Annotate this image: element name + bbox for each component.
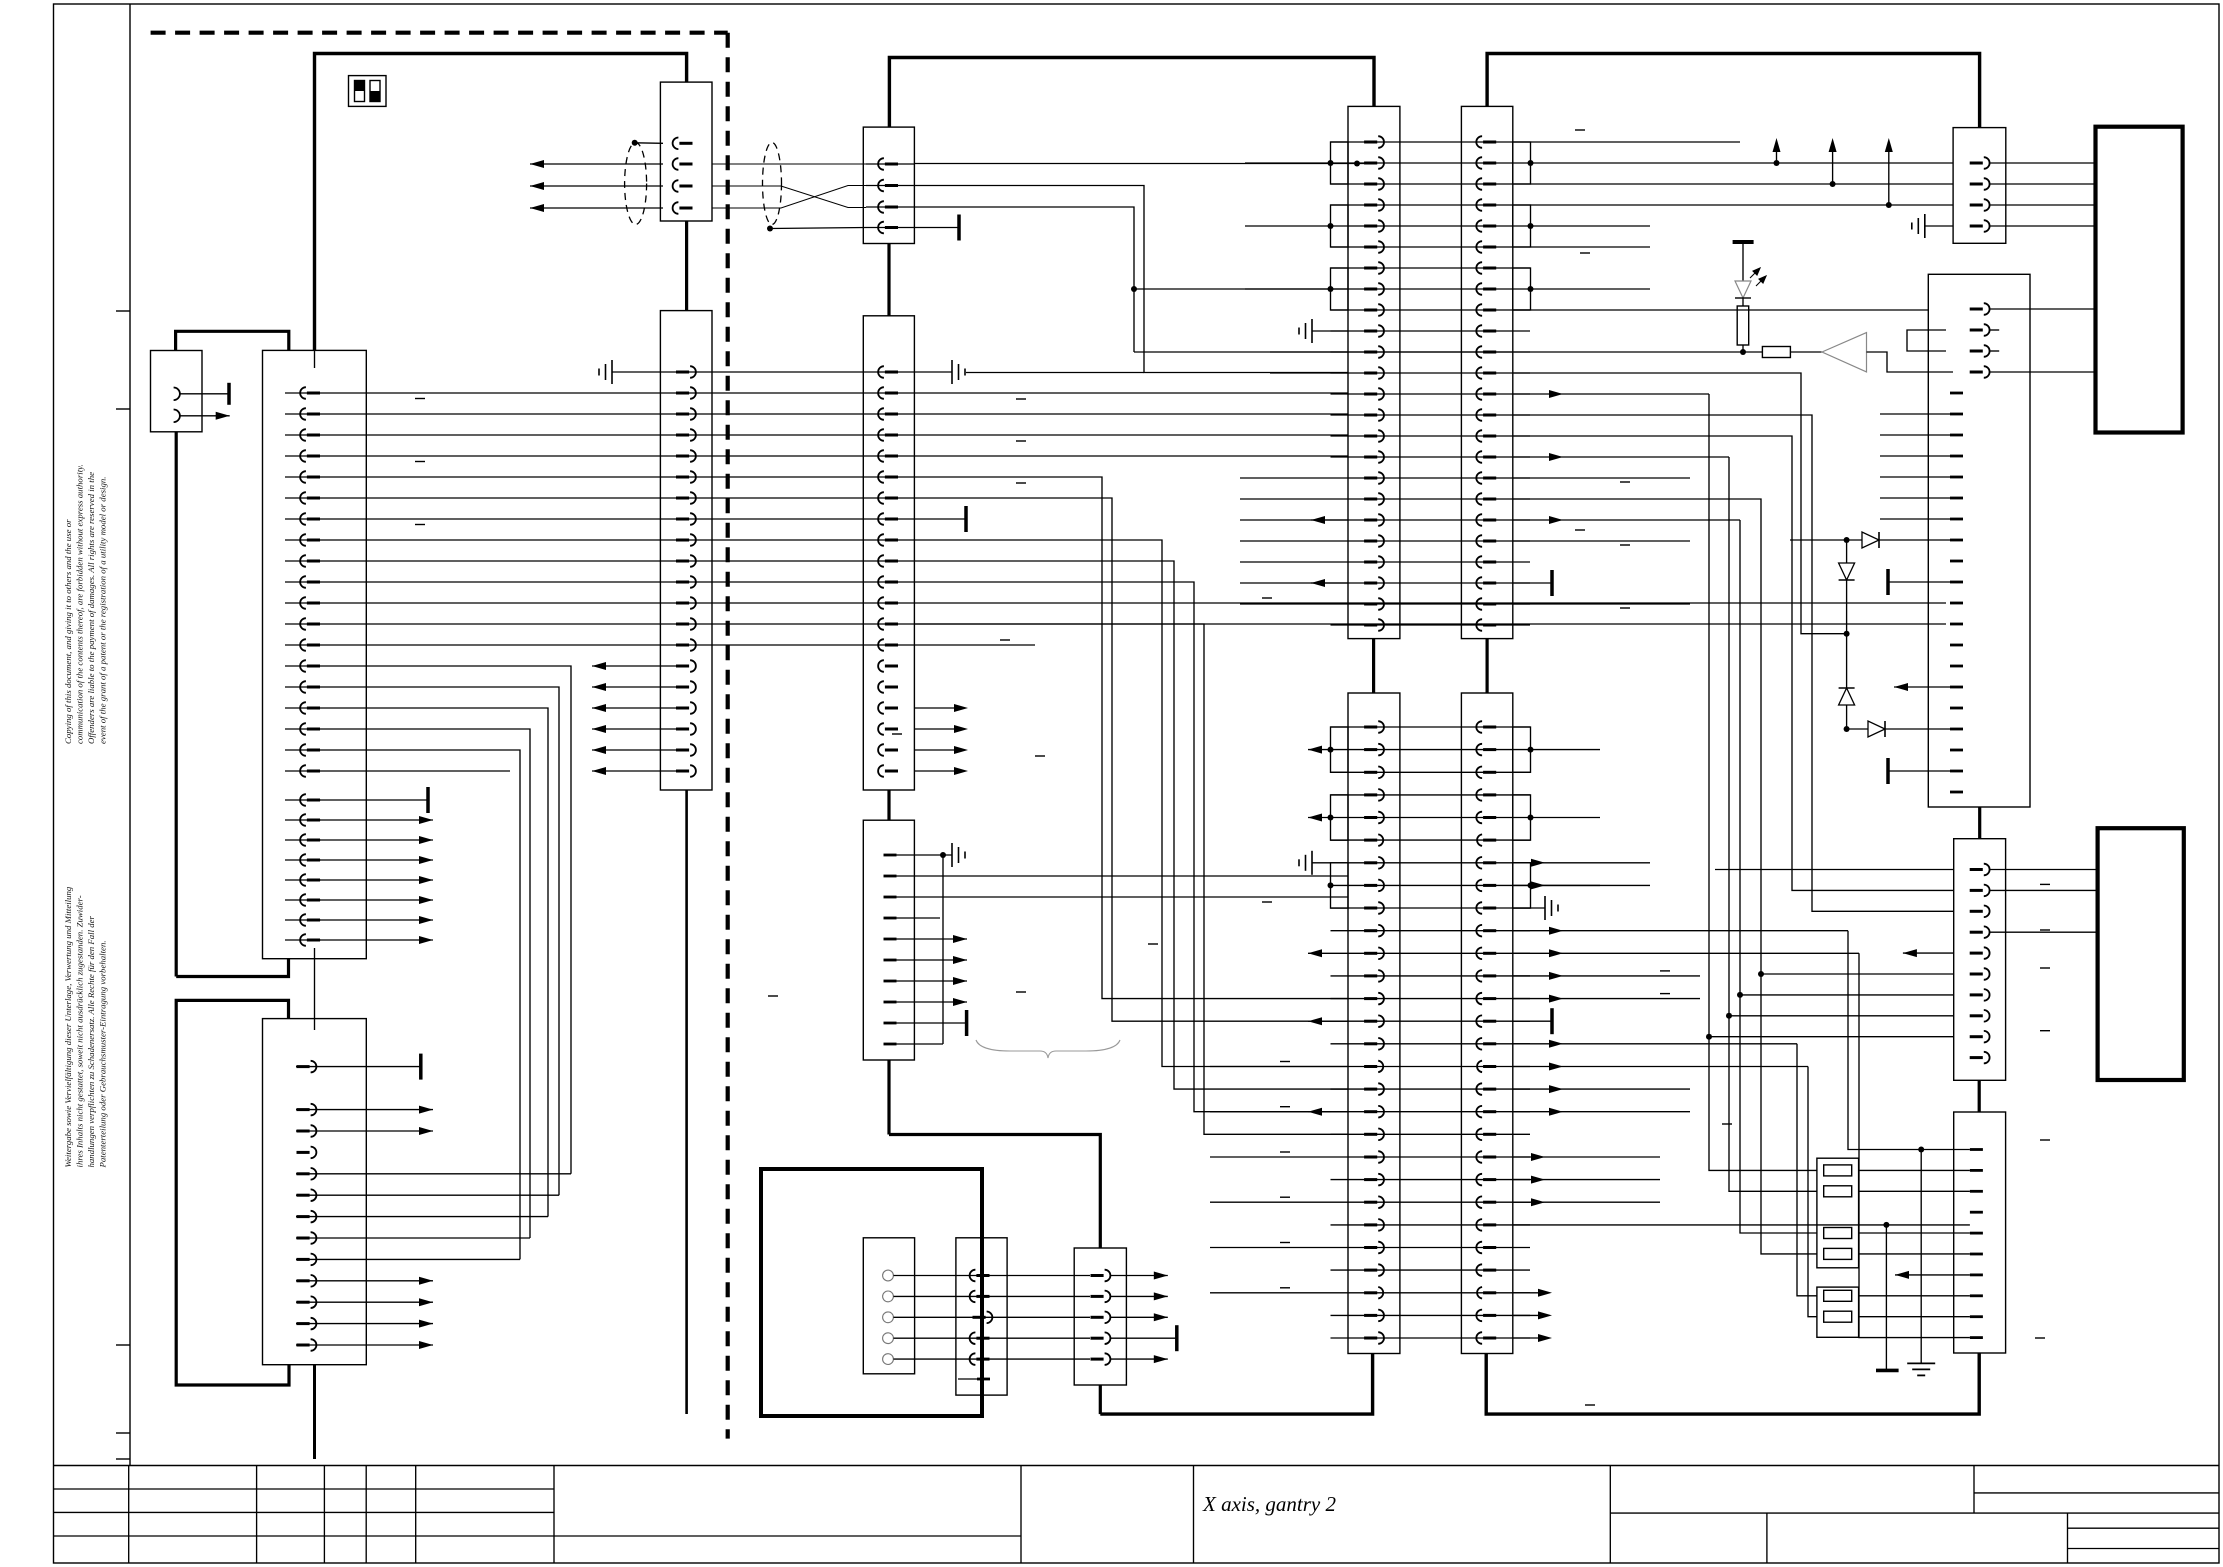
frame tick marks <box>116 310 130 312</box>
wire thick bus middle section <box>889 58 1374 128</box>
connector X6 lower housing <box>1348 693 1400 1354</box>
X1 pins group A with wires <box>285 392 366 394</box>
riser wires X1 to X3 <box>366 666 571 1174</box>
wire thick bottom bus left <box>1100 1354 1372 1415</box>
ground lead <box>1920 1150 1922 1364</box>
svg-text:handlungen verpflichten zu Sch: handlungen verpflichten zu Schadenersatz… <box>86 915 96 1167</box>
X7 upper pins <box>1476 136 1482 148</box>
svg-text:event of the grant of a patent: event of the grant of a patent or the re… <box>98 477 108 744</box>
svg-text:X axis, gantry 2: X axis, gantry 2 <box>1202 1492 1336 1516</box>
X7 row14 wire to X10 row1 <box>1513 436 1954 890</box>
resistor R1 vertical <box>1742 298 1744 306</box>
wire X0 top link to X1 <box>176 331 289 350</box>
cabinet boundary dashed line <box>151 31 728 35</box>
X9 diode row 11 <box>1790 539 1950 541</box>
X4b pins <box>878 366 884 378</box>
ground bus wire right <box>966 372 1144 374</box>
ground symbol bottom <box>1907 1362 1935 1364</box>
X6-X7 lower row wires <box>1331 726 1531 728</box>
svg-text:Weitergabe sowie Vervielfältig: Weitergabe sowie Vervielfältigung dieser… <box>63 886 73 1167</box>
X9 row 4 wire to block <box>1990 371 2096 373</box>
X7 lower row10 wire to X11 row9 <box>1513 952 1859 954</box>
wire thick left elbow B <box>176 1000 289 1385</box>
op-amp input wire <box>1134 351 1762 353</box>
X6 upper shield groups <box>1331 142 1349 184</box>
X4a pins <box>866 163 914 165</box>
X7 lower rows 16-17 arrow stubs <box>1513 1088 1690 1090</box>
X7 rows with end labels <box>1513 477 1690 479</box>
connector X6 upper housing <box>1348 106 1400 638</box>
X2a pins <box>673 138 679 150</box>
X9 link to boxA <box>1978 807 1981 839</box>
op-amp U1 <box>1822 333 1867 372</box>
diode D1 <box>1862 532 1879 548</box>
X5b extra pin <box>958 1378 990 1380</box>
X7 lower row9 wire to X11 row0 <box>1513 930 1848 932</box>
X7 row11 wire to diode chain <box>1513 373 1847 634</box>
X6 lower pins <box>1378 721 1384 733</box>
X6 lower left arrows <box>1308 749 1331 751</box>
X4a row3 wire to X6 row7 and op-amp <box>914 207 1134 352</box>
wire X0 to frame <box>175 432 178 977</box>
X6 upper left arrows <box>1311 519 1348 521</box>
X7 row15 wire to X10 row7 <box>1513 456 1729 458</box>
mid row wires <box>366 392 1348 394</box>
connector X5b housing <box>956 1238 1007 1395</box>
X7 lower row22 wire to X11 row3 <box>1513 1224 1970 1226</box>
X3 arrows lower <box>296 1280 433 1282</box>
X10 row5 left arrow <box>1903 952 1954 954</box>
connector X8 housing <box>1953 128 2006 244</box>
X7 row21 terminator <box>1513 582 1552 584</box>
connector X4c housing <box>863 820 914 1060</box>
connector X3 housing <box>263 1019 367 1365</box>
terminal block X5a housing <box>863 1238 914 1374</box>
X4a row4 terminator <box>914 227 959 229</box>
X9 row 22 terminator <box>1888 770 1950 772</box>
X4b terminator row 7 <box>914 518 966 520</box>
X3 riser wires to X1 <box>296 1173 571 1175</box>
X7 row18 wire to X10 row6 <box>1513 519 1740 521</box>
diode D2 <box>1839 563 1855 580</box>
X6 upper stubs <box>1270 351 1348 353</box>
X8 ground <box>1925 225 1953 227</box>
X7 lower bottom rows right arrows <box>1513 1292 1538 1294</box>
left margin divider <box>129 4 131 1466</box>
diode D4 <box>1868 721 1885 737</box>
connector X5c housing <box>1074 1248 1126 1385</box>
X7 lower row13 terminator <box>1513 1020 1552 1022</box>
left margin legal text (english) <box>63 464 108 744</box>
X7 row12 wire to X10 row8 <box>1513 393 1709 395</box>
X2b long wire down <box>685 790 688 1414</box>
X4c row1 wire to ground <box>896 854 952 856</box>
supply rail bar <box>1733 240 1754 244</box>
thick wire into external connector X5c <box>889 1135 1100 1249</box>
X11 pins <box>1970 1148 1983 1151</box>
DIP switch S1 <box>349 76 387 107</box>
X4c pins <box>884 854 897 857</box>
X6 upper ground row 9 <box>1312 330 1348 332</box>
pin X0.1 <box>179 393 229 395</box>
X10 wires to block K2 <box>1990 869 2098 871</box>
connector X10 housing <box>1954 839 2006 1081</box>
mid row 19 stub from X1 <box>366 770 510 772</box>
X1 pins group B <box>285 799 321 801</box>
LED D5 <box>1742 242 1744 281</box>
cable shield screen 1 <box>625 143 647 225</box>
X3 pins <box>311 1104 317 1116</box>
X9 pins top with arcs <box>1984 303 1990 315</box>
X7 long wire row8 to X9 <box>1513 309 1928 311</box>
module block K1 <box>2096 127 2183 433</box>
pin X0.2 <box>179 415 230 417</box>
X4c row 9 terminator <box>896 1022 967 1024</box>
X1 top stub <box>314 350 316 368</box>
X7 lower row14 wire to resistor RN2a <box>1513 1043 1797 1045</box>
X7 lower shield groups <box>1513 727 1531 772</box>
X7 lower rows 19-21 arrows <box>1513 1156 1660 1158</box>
X4a row2 wire to X6 row11 <box>914 186 1348 373</box>
X7 upper shield groups <box>1513 142 1531 184</box>
X11 row 1 wire <box>1860 1149 1970 1151</box>
connector X2a housing <box>660 82 712 221</box>
X5c wire down to bus <box>1099 1385 1102 1414</box>
svg-text:Offenders are liable to the pa: Offenders are liable to the payment of d… <box>86 472 96 744</box>
X4c rows 2-3 wires right <box>896 875 1348 877</box>
diode chain vertical <box>1846 540 1848 729</box>
X2b pins <box>690 366 696 378</box>
X5b pins <box>970 1275 1090 1277</box>
mid rows 14-19 left arrows <box>592 665 683 667</box>
mid rows 16-19 right arrows <box>915 707 959 709</box>
wire thick left elbow A <box>176 959 288 977</box>
X9 row 18 left arrow <box>1894 686 1950 688</box>
X2a link to X2b <box>685 221 688 311</box>
X11 row 7 left arrow <box>1895 1274 1970 1276</box>
X7 lower row15 wire to resistor RN2b <box>1513 1066 1808 1068</box>
X4c row 4 stub <box>896 917 940 919</box>
X4a row1 wire to X6 row1 <box>914 163 1366 165</box>
X1 group B arrows <box>320 819 433 821</box>
X9 row 13 terminator <box>1888 581 1950 583</box>
X7 lower rows 6-7 arrows <box>1513 862 1650 864</box>
device enclosure bottom middle <box>761 1169 982 1416</box>
wire X2.1 to X4.1 and ground <box>663 371 952 373</box>
connector X9 housing <box>1928 274 2030 807</box>
X11 battery feed <box>1885 1225 1887 1371</box>
X7 lower pins <box>1476 721 1482 733</box>
shield 1 drain dot <box>632 140 638 146</box>
wire thick bus right section <box>1487 54 1980 128</box>
shield 2 drain dot and wire <box>767 226 773 232</box>
X7 lower row11-12 arrow stubs <box>1513 975 1700 977</box>
resistor group RN2 <box>1817 1287 1859 1337</box>
resistor group RN1 <box>1817 1158 1859 1268</box>
X9 diode row 20 <box>1847 728 1950 730</box>
svg-text:communication of the contents: communication of the contents thereof, a… <box>75 464 85 744</box>
X9 rows 2-3 stubs and jumper <box>1990 329 1999 331</box>
connector X1 housing <box>263 350 367 958</box>
X9 row 1 wire to block <box>1990 308 2096 310</box>
wire thick bottom bus right <box>1486 1353 1979 1414</box>
X10 pins <box>1984 864 1990 876</box>
X6 lower left stubs <box>1210 1066 1331 1068</box>
X6 lower ground <box>1312 862 1331 864</box>
up arrow risers <box>1776 152 1778 163</box>
wire labels mid area <box>1016 398 1026 400</box>
terminator on X0.1 <box>227 383 231 405</box>
X7 upper right wires <box>1531 141 1741 143</box>
left margin legal text (german) <box>63 886 108 1168</box>
X9 short stubs <box>1880 413 1950 415</box>
X10 row labels <box>2040 883 2050 885</box>
X10 left wires <box>1715 869 1954 871</box>
X7 wires with labels <box>1531 225 1651 227</box>
op-amp output wire <box>1867 352 1954 372</box>
X4b link to X4c <box>887 790 890 820</box>
X3 link wire to X1 <box>314 948 316 1030</box>
X8 pins <box>1984 157 1990 169</box>
X9 bar pins <box>1950 392 1963 395</box>
X4c wire down to enclosure <box>887 1060 890 1135</box>
wire number labels <box>768 995 778 997</box>
brace under X4c <box>976 1040 1120 1058</box>
X7 lower shield dot stubs <box>1531 749 1601 751</box>
connector X0 housing <box>151 351 203 432</box>
X3 pin 1 with terminator <box>296 1066 421 1068</box>
X2a left wires with arrows <box>530 163 663 165</box>
connector X4b housing <box>863 316 914 790</box>
X6 link stubs <box>1372 639 1375 693</box>
X5a terminals <box>883 1270 894 1281</box>
X7 lower row8 ground right <box>1513 907 1545 909</box>
diode D3 <box>1839 688 1855 705</box>
X4c internal bus wire <box>942 855 944 1044</box>
connector X7 lower housing <box>1461 693 1512 1354</box>
wire thick bus left section <box>315 54 687 351</box>
resistor R2 horizontal <box>1762 347 1790 358</box>
svg-text:Copying of this document, and: Copying of this document, and giving it … <box>63 519 73 744</box>
X4a link to X4b <box>887 244 890 316</box>
cable shield screen 2 <box>763 143 782 225</box>
X11 row wires from resistors <box>1859 1169 1970 1171</box>
supply bar terminal <box>1876 1369 1899 1373</box>
X5c pins <box>1105 1270 1111 1282</box>
X4c arrows <box>896 938 967 940</box>
connector X2b housing <box>660 311 712 790</box>
module block K2 <box>2098 828 2184 1080</box>
arrow out X0.2 <box>216 412 230 420</box>
X6 upper pins <box>1378 136 1384 148</box>
ground at X2 pin 1 <box>612 371 663 373</box>
connector X11 housing <box>1954 1112 2006 1353</box>
terminator on mid row 7 <box>964 506 968 532</box>
X3 arrows upper <box>296 1109 433 1111</box>
X10 link to X11 <box>1978 1080 1981 1112</box>
X6 lower shield groups <box>1331 727 1349 772</box>
connector X4a housing <box>863 127 914 243</box>
mid row 13 wire <box>366 644 1035 646</box>
svg-text:Patenterteilung oder Gebrauchs: Patenterteilung oder Gebrauchsmuster-Ein… <box>98 940 108 1168</box>
crossover wires <box>712 163 866 165</box>
title block table <box>54 1465 2220 1467</box>
X1 group B wire 1 with terminator <box>320 799 428 801</box>
bundle wires dropping to lower right columns <box>915 477 1348 999</box>
X1 wire labels <box>415 398 425 400</box>
X3 wire to title block <box>313 1365 316 1459</box>
X6-X7 upper row wires <box>1331 141 1531 143</box>
mid rows 11-12 long wires to X9 <box>366 602 1946 604</box>
svg-text:ihres Inhalts nicht gestattet,: ihres Inhalts nicht gestattet, soweit ni… <box>75 895 85 1167</box>
X7 row17 wire to X10 row5 <box>1513 499 1817 1254</box>
X7 row13 wire to X10 row2 <box>1513 415 1954 911</box>
connector X7 upper housing <box>1461 106 1512 638</box>
